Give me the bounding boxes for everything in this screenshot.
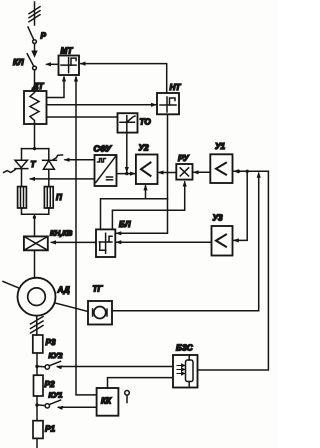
tachogenerator TG box [88, 285, 112, 325]
arrow down on line [31, 51, 37, 58]
wire TO down to junction with arrow [125, 133, 129, 176]
svg-text:ТО: ТО [140, 118, 152, 127]
resistor R2 [34, 375, 55, 396]
svg-text:КУ2: КУ2 [49, 351, 64, 360]
wire TG feedback up with arrow [112, 172, 261, 311]
BZS potentiometer symbol [177, 355, 193, 388]
wire R3 to node [35, 353, 38, 375]
svg-text:У1: У1 [215, 142, 226, 151]
resistor R1 [33, 421, 55, 439]
svg-text:БЛ: БЛ [119, 220, 131, 229]
wire U2 bottom with arrow [143, 184, 147, 198]
fuse P right [44, 187, 63, 208]
supply line top [34, 2, 36, 25]
wire NT to MT top line [80, 62, 167, 94]
wire SFU input from junction to U2 [117, 172, 136, 176]
SFU diagonal and marks [96, 157, 116, 183]
thyristor T left gate [4, 170, 16, 173]
supply slashes [29, 7, 40, 22]
svg-text:РУ: РУ [178, 154, 190, 163]
SFU gate pulse arrow to right thyristor [64, 158, 95, 162]
svg-text:КУ1: КУ1 [49, 391, 63, 400]
svg-text:КК: КК [101, 397, 112, 406]
SFU gate pulse arrow to left thyristor [29, 177, 95, 181]
bridge bottom bar [22, 208, 49, 214]
speed setting block BZS box [173, 344, 198, 388]
logic block BL box [96, 220, 131, 257]
BL characteristic symbol [99, 233, 112, 253]
MT output arrow to line [45, 62, 59, 66]
motor AD [18, 278, 70, 316]
svg-text:СФУ: СФУ [94, 144, 113, 154]
contacts KN,KV box [24, 229, 73, 251]
long vertical wire MT input 2 down to KK [74, 76, 97, 395]
thyristor T right gate [53, 155, 63, 160]
svg-text:Р2: Р2 [45, 380, 55, 389]
svg-text:КН,КВ: КН,КВ [50, 229, 73, 238]
wire BZS to KU2 with arrow [56, 365, 173, 369]
wire U3 to BL with arrow [115, 240, 211, 244]
limiter TO box [118, 113, 152, 132]
motor shaft to TG [55, 303, 88, 312]
wire BL to KNKV with arrow [50, 240, 96, 244]
node below bridge [33, 214, 36, 236]
svg-text:ТГ: ТГ [93, 285, 104, 294]
RU symbol [180, 168, 188, 176]
contact KU1 [39, 391, 63, 408]
resistor R3 [33, 335, 56, 353]
MT characteristic symbol [61, 58, 76, 73]
wire DT to NT with arrow [47, 103, 158, 107]
svg-text:АД: АД [57, 286, 70, 295]
TG symbol [93, 307, 107, 319]
wire BES output up the right edge [198, 171, 269, 370]
U2 symbol [141, 163, 151, 176]
wire R2 to node [35, 396, 38, 421]
U1 symbol [216, 163, 226, 175]
wire U1 to RU with arrow [193, 170, 211, 174]
thyristor T left [15, 149, 37, 187]
amplifier U1 box [210, 142, 232, 183]
firing unit SFU box [94, 144, 117, 187]
multiplier RU box [176, 154, 192, 180]
svg-text:Р: Р [41, 32, 47, 41]
svg-text:НТ: НТ [170, 83, 182, 92]
wire RU to U2 with arrow [158, 170, 177, 174]
NT characteristic symbol [160, 97, 176, 112]
DT zigzag winding [30, 93, 39, 125]
relay MT box [59, 47, 80, 76]
svg-text:БЗС: БЗС [176, 344, 194, 353]
current sensor DT box [24, 82, 47, 124]
svg-text:У3: У3 [213, 214, 224, 223]
thyristor T right [43, 149, 57, 187]
command controller KK box [97, 388, 119, 416]
wire BL top 1 staircase [101, 199, 168, 230]
contact KU2 [39, 351, 64, 369]
wire KL to DT [34, 70, 36, 91]
switch P [28, 27, 47, 43]
wire BL top 2 to RU bottom with arrow [112, 181, 186, 230]
wire KK to KU1 with arrow [57, 406, 97, 410]
svg-text:П: П [56, 193, 63, 202]
svg-text:Т: Т [31, 160, 37, 169]
wire R1 to bottom [36, 438, 38, 448]
svg-text:Р3: Р3 [46, 338, 56, 347]
bridge top bar [22, 147, 49, 150]
wire DT to bridge [34, 124, 36, 149]
motor shaft upper-left [3, 282, 20, 289]
wire NT bottom down to BL input 1 [115, 114, 167, 235]
amplifier U2 box [136, 144, 158, 185]
fuse P left [18, 187, 27, 208]
U3 symbol [216, 235, 226, 247]
amplifier U3 box [212, 214, 233, 256]
svg-text:У2: У2 [139, 144, 150, 153]
contactor KL [13, 54, 36, 70]
wire DT to TO [47, 116, 118, 118]
KK handle [125, 391, 130, 403]
svg-text:МТ: МТ [61, 47, 74, 56]
wire P to KL [34, 44, 36, 53]
svg-text:КЛ: КЛ [13, 58, 24, 67]
svg-text:Р1: Р1 [45, 425, 55, 434]
wire DT to MT input 1 [47, 76, 67, 98]
svg-text:ДТ: ДТ [32, 82, 45, 91]
wire bus down to U3 with arrow [233, 171, 247, 242]
wire right bus into U1 with arrow [233, 169, 268, 173]
wire KNKV to motor [34, 250, 36, 278]
relay NT box [157, 83, 181, 114]
TO characteristic symbol [120, 116, 135, 132]
rotor slip ring slashes [31, 316, 44, 335]
wire KK to BZS [108, 378, 174, 388]
